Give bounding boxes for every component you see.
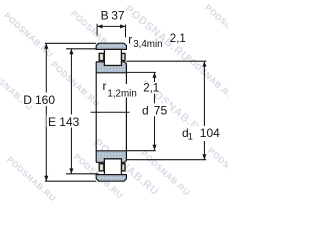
D arrow bottom xyxy=(44,176,48,181)
B extension tick right xyxy=(125,25,127,38)
svg-text:104: 104 xyxy=(200,126,220,140)
inner ring upper cross-section with flanges xyxy=(96,62,126,73)
d1 dimension line upper segment xyxy=(203,61,205,126)
D dimension line upper segment xyxy=(45,43,47,92)
d leader line top (bore chamfer level) xyxy=(126,71,155,73)
d1 arrow top xyxy=(202,61,206,66)
svg-text:2,1: 2,1 xyxy=(170,33,186,45)
svg-text:1: 1 xyxy=(188,131,193,142)
label 2,1 bore chamfer xyxy=(142,83,159,94)
d1 arrow bottom xyxy=(202,154,206,159)
roller upper xyxy=(104,49,121,65)
E extension line top xyxy=(66,48,96,50)
svg-text:3,4min: 3,4min xyxy=(133,39,162,50)
svg-text:d: d xyxy=(142,104,149,118)
d1 dimension line lower segment xyxy=(203,141,205,160)
E dimension line upper segment xyxy=(70,49,72,115)
outer ring upper cross-section xyxy=(96,43,126,49)
d leader line bottom (bore level) xyxy=(126,150,155,152)
label D 160 xyxy=(22,93,57,106)
D arrow top xyxy=(44,43,48,48)
d arrow top xyxy=(152,72,156,77)
d dimension line segment 1 xyxy=(154,73,156,82)
d1 extension line bottom xyxy=(126,159,206,161)
E arrow bottom xyxy=(69,168,73,173)
d dimension line segment 3 xyxy=(154,116,156,150)
label r 1,2min xyxy=(102,84,138,98)
inner ring lower cross-section with flanges xyxy=(96,151,126,163)
cage bar lower right xyxy=(122,164,125,171)
D extension line bottom xyxy=(45,180,96,182)
cage bar upper right xyxy=(122,53,125,60)
E extension line bottom xyxy=(66,173,99,175)
svg-text:160: 160 xyxy=(35,93,55,107)
svg-text:D: D xyxy=(23,93,32,107)
E arrow top xyxy=(69,49,73,54)
page background xyxy=(0,0,228,217)
d dimension line segment 2 xyxy=(154,94,156,104)
roller lower xyxy=(104,159,121,175)
D dimension line lower segment xyxy=(45,106,47,181)
cage bar upper left xyxy=(99,53,104,60)
B arrow left xyxy=(97,24,102,28)
svg-text:75: 75 xyxy=(154,104,168,118)
svg-text:r: r xyxy=(103,79,107,93)
B arrow right xyxy=(120,24,125,28)
cage bar lower left xyxy=(99,164,104,171)
svg-text:r: r xyxy=(128,32,132,46)
watermark PODSNAB.RU large instances xyxy=(91,3,208,198)
D extension line top xyxy=(45,42,96,44)
label d 75 xyxy=(141,104,170,117)
svg-text:B: B xyxy=(101,9,109,23)
label E 143 xyxy=(47,115,82,127)
E dimension line lower segment xyxy=(70,128,72,174)
watermark PODSNAB.RU small tiled instances xyxy=(0,2,259,203)
d1 extension line top xyxy=(126,60,206,62)
B dimension line xyxy=(97,25,125,27)
center line across bore xyxy=(91,111,130,113)
bore line right xyxy=(125,73,127,151)
svg-text:1,2min: 1,2min xyxy=(107,88,136,99)
B extension tick left xyxy=(96,24,98,36)
svg-text:143: 143 xyxy=(59,115,79,129)
svg-text:2,1: 2,1 xyxy=(143,82,159,94)
d arrow bottom xyxy=(152,145,156,150)
svg-text:E: E xyxy=(48,115,56,129)
svg-text:37: 37 xyxy=(111,9,125,23)
bore line left xyxy=(95,73,97,151)
outer ring lower cross-section xyxy=(96,175,126,182)
label d1 104 xyxy=(181,126,221,141)
